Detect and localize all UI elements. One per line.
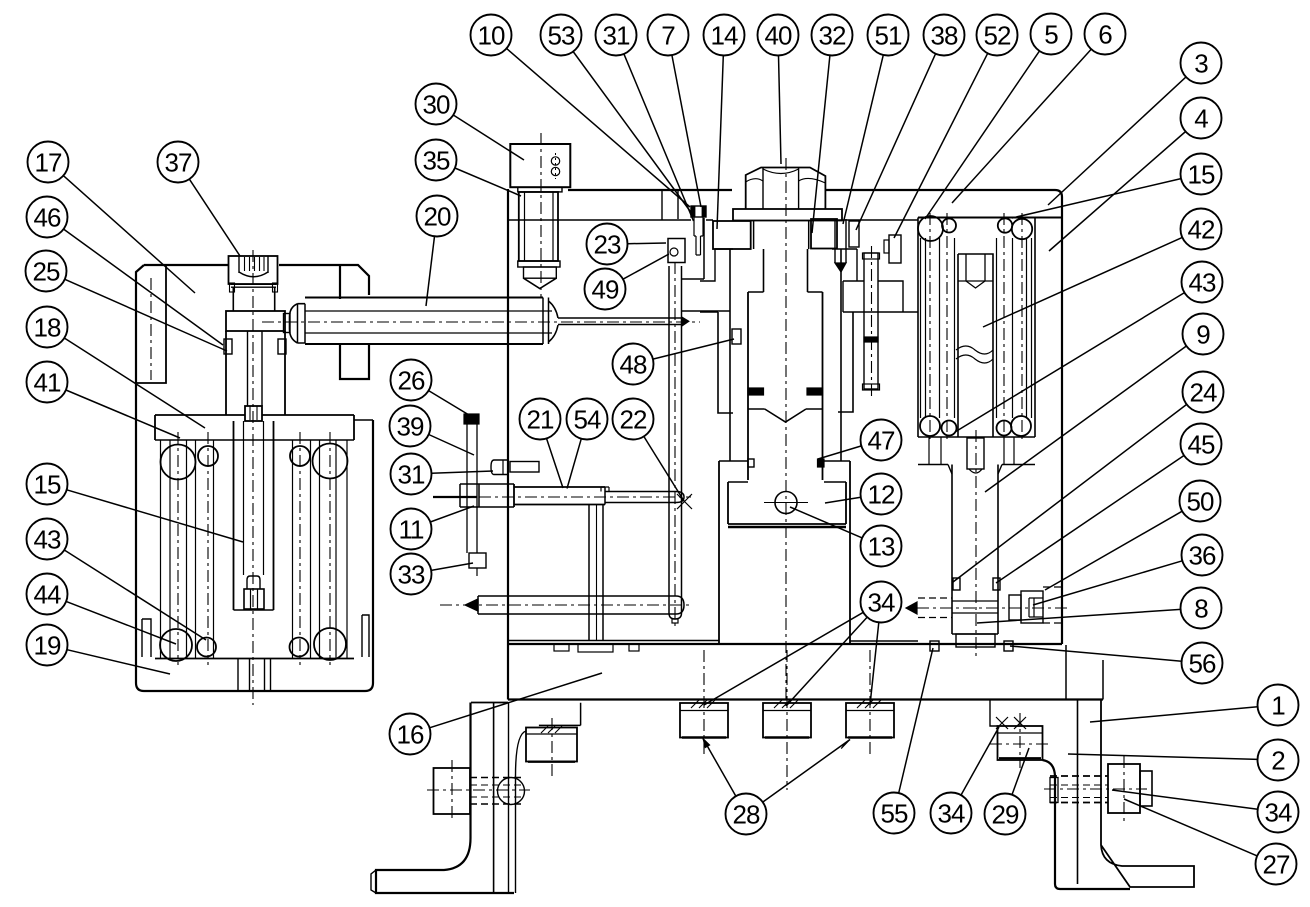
balloon 6 <box>1085 14 1126 55</box>
balloon 34 <box>1258 792 1299 833</box>
svg-text:27: 27 <box>1263 850 1290 880</box>
left housing inner step <box>137 265 166 383</box>
svg-text:7: 7 <box>661 21 675 51</box>
svg-text:9: 9 <box>1196 320 1210 350</box>
svg-text:44: 44 <box>34 580 61 610</box>
left bolt nut circle <box>498 778 525 805</box>
balloon 13 <box>861 526 902 567</box>
left bottom-right step <box>362 615 369 657</box>
hidden rod 50 <box>918 597 952 599</box>
clamp block right <box>811 219 837 249</box>
leader 34 <box>704 612 863 705</box>
part 23 <box>668 239 685 263</box>
nut block 1 <box>680 703 728 738</box>
leader 23 <box>628 242 667 245</box>
right springs circles top <box>918 216 943 241</box>
x mark 22 <box>677 494 692 509</box>
svg-text:24: 24 <box>1190 378 1217 408</box>
stem walls <box>951 465 953 635</box>
svg-text:39: 39 <box>397 412 424 442</box>
balloon 49 <box>585 269 626 310</box>
hole 13 <box>775 492 797 514</box>
nut block 3 <box>846 703 894 738</box>
svg-text:25: 25 <box>33 257 60 287</box>
stem upper rod <box>247 331 249 406</box>
svg-text:5: 5 <box>1044 20 1058 50</box>
bolt 35 top washer <box>518 187 562 192</box>
leader 3 <box>1048 77 1186 205</box>
bolt 35 body <box>519 192 558 261</box>
leader 56 <box>1010 646 1182 661</box>
balloon 34 <box>861 582 902 623</box>
svg-text:19: 19 <box>34 631 61 661</box>
rod 21/54 upper <box>460 484 514 507</box>
leader 9 <box>985 346 1186 492</box>
arrowhead 28b <box>841 740 850 749</box>
svg-text:10: 10 <box>478 21 505 51</box>
balloon 46 <box>27 197 68 238</box>
svg-text:11: 11 <box>399 515 425 545</box>
balloon 10 <box>471 15 512 56</box>
part 48 <box>732 329 741 344</box>
svg-text:12: 12 <box>868 480 895 510</box>
svg-text:22: 22 <box>620 405 647 435</box>
balloon 5 <box>1031 14 1072 55</box>
screw bottom cone <box>748 409 823 422</box>
balloon 27 <box>1256 844 1297 885</box>
balloon 30 <box>416 84 457 125</box>
ejector rod <box>864 253 878 389</box>
balloon 40 <box>758 15 799 56</box>
balloon 53 <box>541 15 582 56</box>
balloon 25 <box>26 251 67 292</box>
svg-text:28: 28 <box>733 800 760 830</box>
leader 27 <box>1124 799 1257 856</box>
leader 1 <box>1090 707 1258 722</box>
rod lower centerline <box>440 604 691 606</box>
center body top second line <box>508 219 918 221</box>
stem rod pass lines <box>952 600 998 602</box>
left bolt centerline <box>427 789 530 791</box>
bore walls <box>729 249 731 461</box>
die ledge y461 <box>719 460 850 462</box>
right springs circles bottom <box>920 416 940 436</box>
balloon 17 <box>28 142 69 183</box>
balloon 15 <box>27 464 68 505</box>
cylinder 20 centerline <box>262 321 700 323</box>
balloon 41 <box>27 362 68 403</box>
svg-text:6: 6 <box>1098 20 1112 50</box>
plug hidden hole <box>1043 586 1062 588</box>
svg-text:43: 43 <box>1189 268 1216 298</box>
svg-text:4: 4 <box>1194 104 1208 134</box>
balloon 28 <box>726 794 767 835</box>
leader 10 <box>507 48 691 207</box>
balloon 19 <box>27 625 68 666</box>
part 38 <box>849 221 859 247</box>
bore outer pockets <box>718 312 733 413</box>
left bolt shank hidden <box>470 777 524 779</box>
svg-text:47: 47 <box>868 426 895 456</box>
pin 53 <box>691 206 706 217</box>
spring top line to wall <box>354 419 373 421</box>
leader 34 <box>870 622 879 705</box>
balloon 21 <box>520 399 561 440</box>
svg-text:18: 18 <box>34 313 61 343</box>
balloon 36 <box>1182 535 1223 576</box>
nut block 2 <box>763 703 811 738</box>
balloon 11 <box>391 509 432 550</box>
balloon 56 <box>1182 643 1223 684</box>
balloon 43 <box>1182 262 1223 303</box>
square 55 <box>930 641 939 651</box>
shank wide <box>753 221 755 250</box>
leader 2 <box>1068 754 1258 759</box>
svg-text:34: 34 <box>938 799 965 829</box>
center column <box>958 254 993 437</box>
svg-text:31: 31 <box>398 460 425 490</box>
leader 8 <box>977 609 1181 623</box>
clamp block left <box>713 221 751 249</box>
svg-text:26: 26 <box>398 366 425 396</box>
balloon 20 <box>417 196 458 237</box>
part 52 <box>889 235 901 263</box>
leader 15 <box>67 490 243 542</box>
balloon 32 <box>812 15 853 56</box>
svg-text:3: 3 <box>1194 49 1208 79</box>
svg-text:32: 32 <box>819 21 846 51</box>
hex bolt 40 head <box>746 168 826 209</box>
right bolt centerline <box>1044 788 1147 790</box>
bore upper step right <box>843 281 918 312</box>
left centerline <box>252 250 254 705</box>
balloon 31 <box>391 454 432 495</box>
balloon 51 <box>868 15 909 56</box>
svg-text:21: 21 <box>527 405 554 435</box>
bolt 35 centerline <box>540 133 542 298</box>
balloon 12 <box>861 474 902 515</box>
balloon 7 <box>648 15 689 56</box>
balloon 31 <box>596 15 637 56</box>
leader 47 <box>818 446 861 459</box>
cylinder 20 push rod <box>558 317 682 319</box>
left bolt vertical centerline <box>451 760 453 822</box>
leader 20 <box>426 236 435 306</box>
leader 50 <box>1045 511 1182 590</box>
balloon 44 <box>27 574 68 615</box>
svg-text:41: 41 <box>34 368 61 398</box>
bolt 37 socket arc <box>239 272 268 277</box>
balloon 47 <box>861 420 902 461</box>
svg-text:34: 34 <box>1265 798 1292 828</box>
right bolt vertical centerline <box>1123 756 1125 822</box>
balloon 54 <box>567 399 608 440</box>
bolt 35 bottom washer <box>518 261 560 267</box>
balloon 16 <box>390 714 431 755</box>
leader 28 <box>703 739 736 797</box>
left bracket mount step <box>539 703 581 726</box>
svg-text:30: 30 <box>423 90 450 120</box>
balloon 52 <box>977 15 1018 56</box>
svg-text:53: 53 <box>548 21 575 51</box>
leader 52 <box>894 53 988 238</box>
stem bottom bolt <box>247 576 260 589</box>
leader 24 <box>953 404 1187 582</box>
leader 11 <box>430 506 474 522</box>
cylinder 20 tip stub <box>284 314 291 333</box>
leader 13 <box>790 507 862 538</box>
svg-text:42: 42 <box>1188 215 1215 245</box>
left housing wall centerline <box>150 278 152 380</box>
bolt 37 washer <box>231 283 276 285</box>
stem bottom <box>952 633 998 635</box>
screw 31/39 <box>510 462 539 473</box>
stem pin <box>967 438 984 469</box>
base right edge <box>1065 645 1067 700</box>
balloon 15 <box>1181 154 1222 195</box>
svg-text:13: 13 <box>868 532 895 562</box>
leader 43 <box>955 293 1185 432</box>
svg-text:1: 1 <box>1271 691 1285 721</box>
base bottom <box>508 698 1103 700</box>
left bottom plate <box>155 658 354 660</box>
svg-text:54: 54 <box>574 405 601 435</box>
balloon 55 <box>874 793 915 834</box>
block 29 <box>998 726 1043 760</box>
balloon 3 <box>1181 43 1222 84</box>
svg-text:14: 14 <box>711 21 738 51</box>
leader 31 <box>624 54 694 221</box>
leader 39 <box>429 435 474 456</box>
balloon 48 <box>613 344 654 385</box>
ejector rod centerline <box>871 246 873 397</box>
svg-text:23: 23 <box>594 230 621 260</box>
right spring guides left <box>920 238 922 418</box>
balloon 14 <box>704 15 745 56</box>
svg-text:36: 36 <box>1189 541 1216 571</box>
seal 47 squares <box>748 459 754 467</box>
bolt 35 cone <box>524 278 557 288</box>
leader 34 <box>961 727 999 795</box>
washer lower plate <box>715 249 857 281</box>
leader 30 <box>453 115 524 160</box>
leader 28 <box>763 740 850 803</box>
balloon 8 <box>1181 588 1222 629</box>
leader 36 <box>1033 561 1182 605</box>
stem head square <box>245 406 262 421</box>
stem body <box>233 421 235 610</box>
die block 12 <box>728 482 846 524</box>
svg-text:37: 37 <box>165 148 192 178</box>
leader 17 <box>63 176 195 293</box>
leader 26 <box>429 391 469 415</box>
svg-text:20: 20 <box>424 202 451 232</box>
center body left wall <box>507 189 509 700</box>
seal right <box>278 339 286 354</box>
rod 22 vertical <box>668 266 670 613</box>
right bolt head <box>1108 764 1140 813</box>
balloon 39 <box>390 406 431 447</box>
balloon 4 <box>1181 98 1222 139</box>
svg-text:40: 40 <box>765 21 792 51</box>
cavity floors <box>508 640 719 642</box>
bolt 40 washer <box>733 209 842 221</box>
leader 29 <box>1012 748 1029 795</box>
screw body <box>748 291 823 293</box>
right spring guides right <box>996 238 998 418</box>
leader 34 <box>787 617 867 705</box>
leader 35 <box>455 168 521 196</box>
svg-text:33: 33 <box>398 560 425 590</box>
balloon 18 <box>27 307 68 348</box>
stem inner rod lines <box>243 421 245 575</box>
svg-text:49: 49 <box>592 275 619 305</box>
leader 32 <box>812 55 830 233</box>
leader 41 <box>66 390 180 438</box>
rod 21 centerline <box>433 496 691 498</box>
svg-text:34: 34 <box>868 588 895 618</box>
right bolt shank hidden <box>1050 775 1108 777</box>
balloon 43 <box>27 519 68 560</box>
leader 16 <box>430 673 603 728</box>
center body top edge <box>568 190 1062 644</box>
svg-text:45: 45 <box>1188 430 1215 460</box>
balloon 45 <box>1181 424 1222 465</box>
base top <box>508 643 1062 645</box>
block 30 <box>510 144 570 187</box>
left bottom-left step <box>142 619 151 657</box>
screw seal bands <box>748 388 764 395</box>
spring flange <box>155 415 354 440</box>
balloon 37 <box>158 142 199 183</box>
svg-text:31: 31 <box>603 21 630 51</box>
housing bottom plate <box>918 437 1035 465</box>
screw shank <box>763 249 765 292</box>
leader 51 <box>843 55 883 224</box>
svg-text:2: 2 <box>1271 746 1285 776</box>
left spring guides <box>160 440 162 659</box>
leader 33 <box>431 563 473 570</box>
leader 55 <box>899 648 933 793</box>
leader 53 <box>573 52 691 214</box>
left housing outline <box>144 265 369 379</box>
svg-text:55: 55 <box>881 799 908 829</box>
bracket top plate line <box>471 702 508 704</box>
leader 34 <box>1112 790 1258 809</box>
arrowhead 28a <box>703 739 710 748</box>
svg-text:29: 29 <box>992 800 1019 830</box>
base tabs <box>554 644 569 651</box>
leader 6 <box>952 49 1091 203</box>
leader 31 <box>432 471 494 473</box>
balloon 29 <box>985 794 1026 835</box>
svg-text:48: 48 <box>620 350 647 380</box>
bolt 35 tip <box>524 267 557 278</box>
balloon 38 <box>924 15 965 56</box>
cavity ledge y311 <box>682 310 730 312</box>
seal 25 left <box>224 339 232 354</box>
pocket right wall <box>703 218 705 279</box>
leader 44 <box>66 601 176 644</box>
right bracket step <box>990 700 998 727</box>
rod lower <box>478 596 676 614</box>
balloon 22 <box>613 399 654 440</box>
top plate step edge <box>661 190 663 220</box>
balloon 33 <box>391 554 432 595</box>
svg-text:15: 15 <box>1188 160 1215 190</box>
svg-text:8: 8 <box>1194 594 1208 624</box>
left bottom boss <box>238 659 271 692</box>
stem seals <box>953 578 960 590</box>
svg-text:43: 43 <box>34 525 61 555</box>
cylinder 20 barrel <box>305 297 543 299</box>
die lower walls <box>718 461 720 645</box>
balloon 35 <box>416 140 457 181</box>
balloon 24 <box>1183 372 1224 413</box>
cylinder 20 taper <box>542 298 544 345</box>
bore upper step left <box>700 249 718 312</box>
svg-text:50: 50 <box>1187 487 1214 517</box>
pocket floor <box>682 278 704 280</box>
leader 37 <box>189 179 240 256</box>
leader 45 <box>996 456 1184 584</box>
die block 12 top <box>728 481 846 483</box>
left bracket block <box>526 728 577 762</box>
bolt 37 neck <box>233 287 274 311</box>
bolt 37 flange <box>226 311 285 331</box>
leader 42 <box>983 237 1182 327</box>
leader 46 <box>64 229 223 345</box>
base right outer edge <box>1102 660 1104 700</box>
svg-text:52: 52 <box>984 21 1011 51</box>
leader 21 <box>547 438 564 488</box>
left bolt head <box>434 768 471 814</box>
square 56 <box>1004 641 1013 651</box>
leader 48 <box>653 339 734 359</box>
leader 7 <box>672 55 701 207</box>
leader 18 <box>64 338 205 428</box>
leader 25 <box>65 279 227 351</box>
leader 38 <box>856 54 936 230</box>
right bracket <box>1043 760 1131 889</box>
column wavy break <box>956 346 993 354</box>
balloon 1 <box>1258 685 1299 726</box>
svg-text:15: 15 <box>34 470 61 500</box>
balloon 50 <box>1180 481 1221 522</box>
pin 51 <box>835 219 846 263</box>
balloon 2 <box>1258 740 1299 781</box>
right spring housing walls <box>917 218 919 438</box>
leader 14 <box>717 56 723 230</box>
leader 12 <box>825 497 861 503</box>
left springs circles <box>161 445 196 480</box>
balloon 9 <box>1183 314 1224 355</box>
pin 53 seat <box>677 191 679 219</box>
svg-text:56: 56 <box>1189 649 1216 679</box>
bolt 37 head <box>229 256 278 284</box>
leader 43 <box>64 550 206 640</box>
leader 49 <box>623 254 669 279</box>
svg-text:51: 51 <box>875 21 902 51</box>
svg-text:16: 16 <box>397 720 424 750</box>
svg-text:46: 46 <box>34 203 61 233</box>
screw centerline <box>785 158 787 707</box>
leader 15 <box>1012 179 1181 218</box>
left bracket <box>376 703 514 894</box>
pin 26 <box>464 414 479 424</box>
plug 36 <box>1009 595 1021 620</box>
nut 33 <box>469 553 486 568</box>
